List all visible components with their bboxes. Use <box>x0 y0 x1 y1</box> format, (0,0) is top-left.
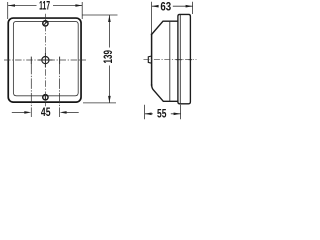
dim 117 line <box>8 5 82 7</box>
dim 45 left leader <box>12 111 25 113</box>
side view bottom slant <box>152 84 178 101</box>
horizontal centerline front view <box>4 59 86 61</box>
left bolt centerline <box>30 64 32 117</box>
side view top slant <box>151 21 178 35</box>
dim 139 bottom arrow <box>108 96 111 103</box>
dim 45 right leader <box>66 111 78 113</box>
front view outer housing box <box>8 18 81 102</box>
side view seam line <box>169 21 171 101</box>
svg-text:117: 117 <box>39 0 50 13</box>
center ornament cross <box>38 53 52 67</box>
dim 63 left arrow <box>152 5 159 8</box>
svg-text:63: 63 <box>160 0 171 13</box>
svg-text:55: 55 <box>157 107 167 121</box>
dim 45 right arrow <box>60 111 67 114</box>
right bolt centerline <box>59 64 61 117</box>
dim 63 line <box>152 5 193 7</box>
bottom screw <box>43 95 48 100</box>
dim 55 left arrow <box>145 113 152 116</box>
lens flange line <box>179 15 181 104</box>
dim 55 right extension line <box>180 105 182 119</box>
dim 45 left arrow <box>24 111 31 114</box>
dim 139 line <box>108 15 110 103</box>
dim 117 left extension line <box>7 2 9 19</box>
svg-text:45: 45 <box>41 105 51 119</box>
dim 63 right extension line <box>192 2 194 14</box>
dim 117 left arrow <box>8 4 15 7</box>
dim 117 right arrow <box>75 4 82 7</box>
front view inner lens bezel <box>13 21 78 95</box>
dim 117 right extension line <box>81 2 83 19</box>
side view left edge <box>151 34 153 87</box>
vertical centerline front view <box>44 14 46 107</box>
dim 139 bottom extension line <box>83 102 116 104</box>
dim 55 line <box>145 113 181 115</box>
right mount cross <box>59 57 61 64</box>
top screw slot <box>44 22 47 25</box>
bottom screw slot <box>44 95 46 99</box>
side view mounting tab <box>148 56 151 63</box>
dim 55 left extension line <box>144 105 146 119</box>
dim 139 top extension line <box>83 14 118 16</box>
side view centerline <box>144 59 197 61</box>
dim 55 right arrow <box>174 113 181 116</box>
lens outline <box>178 14 191 103</box>
left mount cross <box>30 57 32 64</box>
top screw <box>43 21 48 26</box>
center ornament circle <box>42 57 49 64</box>
dim 63 right arrow <box>186 5 193 8</box>
dim 63 left extension line <box>151 2 153 34</box>
side centerline crossing ticks <box>176 59 192 61</box>
dim 139 top arrow <box>108 15 111 22</box>
svg-text:139: 139 <box>101 50 115 64</box>
